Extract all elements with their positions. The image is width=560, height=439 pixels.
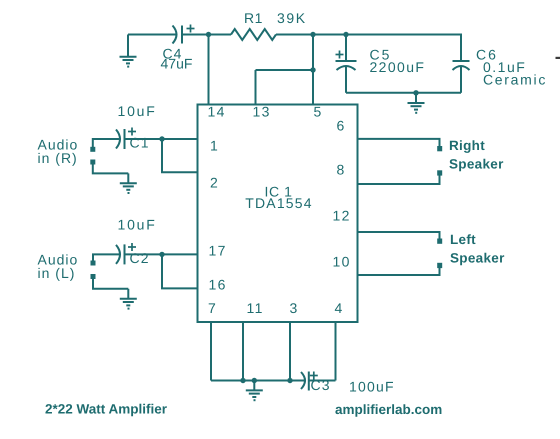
wire top bus middle segment — [182, 34, 231, 36]
wire C6 bottom lead — [460, 67, 462, 93]
svg-text:amplifierlab.com: amplifierlab.com — [335, 402, 442, 417]
svg-text:Right: Right — [449, 138, 485, 153]
svg-text:2*22 Watt Amplifier: 2*22 Watt Amplifier — [45, 402, 168, 417]
node junction pin11 — [240, 378, 245, 383]
node junction C1 out — [159, 136, 164, 141]
svg-text:2: 2 — [210, 175, 218, 191]
wire pin5 vertical — [312, 35, 314, 106]
node junction bottom ground — [252, 378, 257, 383]
supply stub mark — [556, 57, 560, 59]
wire pin12 to left speaker top — [358, 232, 440, 239]
wire C5-C6 bottom — [346, 92, 461, 94]
capacitor C4 — [173, 25, 195, 44]
svg-text:7: 7 — [208, 300, 216, 316]
terminal square left speaker bottom — [437, 263, 442, 268]
svg-text:4: 4 — [335, 300, 343, 316]
wire C5 bottom lead — [345, 67, 347, 93]
svg-text:C3: C3 — [311, 377, 331, 393]
wire pin8 to right speaker bottom — [358, 175, 440, 184]
svg-text:in (R): in (R) — [38, 150, 78, 166]
ground (bottom bus) — [246, 381, 263, 401]
node junction pin14 top — [206, 32, 211, 37]
wire audio L bottom to ground — [93, 279, 128, 289]
wire audio R input — [93, 139, 120, 147]
svg-text:TDA1554: TDA1554 — [245, 195, 313, 211]
svg-text:2200uF: 2200uF — [370, 59, 426, 75]
wire audio R bottom to ground — [93, 164, 129, 173]
terminal square audio R bottom — [90, 160, 95, 165]
terminal square left speaker top — [437, 239, 442, 244]
ground (C4 left) — [120, 35, 137, 67]
capacitor C1 — [116, 128, 136, 150]
IC U1 TDA1554 body — [198, 105, 358, 323]
wire bottom bus left — [211, 380, 305, 382]
terminal square audio L bottom — [91, 274, 96, 279]
capacitor C5 — [336, 51, 357, 71]
svg-text:Speaker: Speaker — [450, 251, 505, 266]
svg-text:Left: Left — [450, 232, 476, 247]
node junction R1 right — [310, 32, 315, 37]
wire pin10 to left speaker bottom — [358, 268, 440, 275]
wire bottom bus right — [309, 380, 336, 382]
svg-text:10: 10 — [333, 254, 351, 270]
terminal square right speaker top — [437, 146, 442, 151]
wire pin11 vertical — [242, 322, 244, 381]
svg-text:1: 1 — [210, 138, 218, 154]
svg-text:12: 12 — [333, 208, 351, 224]
ground (audio R) — [120, 173, 137, 193]
svg-text:R1: R1 — [244, 10, 263, 26]
node junction ground tap — [413, 90, 418, 95]
svg-text:39K: 39K — [277, 10, 307, 26]
svg-text:17: 17 — [209, 243, 227, 259]
svg-text:100uF: 100uF — [349, 379, 395, 395]
wire C6 top lead — [460, 34, 462, 62]
terminal square audio R top — [90, 147, 95, 152]
capacitor C2 — [116, 243, 136, 264]
svg-text:16: 16 — [209, 277, 227, 293]
svg-text:6: 6 — [337, 118, 345, 134]
capacitor C3 — [301, 372, 318, 391]
svg-text:10uF: 10uF — [118, 217, 157, 233]
node junction C5 top — [343, 32, 348, 37]
svg-text:10uF: 10uF — [118, 103, 157, 119]
svg-text:5: 5 — [314, 104, 322, 120]
wire C2 to pin17 — [125, 253, 198, 255]
wire audio L input — [93, 254, 120, 261]
ground (audio L) — [120, 289, 137, 309]
svg-text:8: 8 — [337, 162, 345, 178]
wire top bus left segment — [128, 34, 177, 36]
capacitor C6 — [453, 61, 470, 70]
wire C5 top lead — [345, 35, 347, 62]
wire C1 to pin1 — [125, 138, 198, 140]
wire pin16 branch — [162, 254, 198, 288]
wire pin4 vertical — [335, 322, 337, 381]
svg-text:in (L): in (L) — [38, 265, 76, 281]
svg-text:Ceramic: Ceramic — [483, 72, 547, 88]
wire pin13 vertical — [255, 70, 257, 105]
svg-text:11: 11 — [247, 300, 264, 316]
wire jog horizontal — [256, 69, 314, 71]
wire pin2 branch — [162, 139, 198, 172]
svg-text:13: 13 — [253, 104, 271, 120]
wire top bus right segment — [276, 34, 461, 36]
svg-text:Speaker: Speaker — [449, 157, 504, 172]
svg-text:14: 14 — [208, 104, 226, 120]
wire pin6 to right speaker top — [358, 139, 440, 147]
node junction jog — [310, 67, 315, 72]
resistor R1 — [231, 29, 276, 40]
node junction pin3 — [287, 378, 292, 383]
svg-text:3: 3 — [290, 300, 298, 316]
ground (C5/C6) — [408, 93, 425, 113]
wire pin14 vertical — [208, 35, 210, 106]
svg-text:C2: C2 — [130, 250, 150, 266]
wire pin7 vertical — [210, 322, 212, 381]
svg-text:C1: C1 — [130, 135, 150, 151]
terminal square right speaker bottom — [437, 170, 442, 175]
svg-text:47uF: 47uF — [161, 56, 193, 72]
wire pin3 vertical — [289, 322, 291, 381]
terminal square audio L top — [91, 261, 96, 266]
node junction C2 out — [159, 252, 164, 257]
